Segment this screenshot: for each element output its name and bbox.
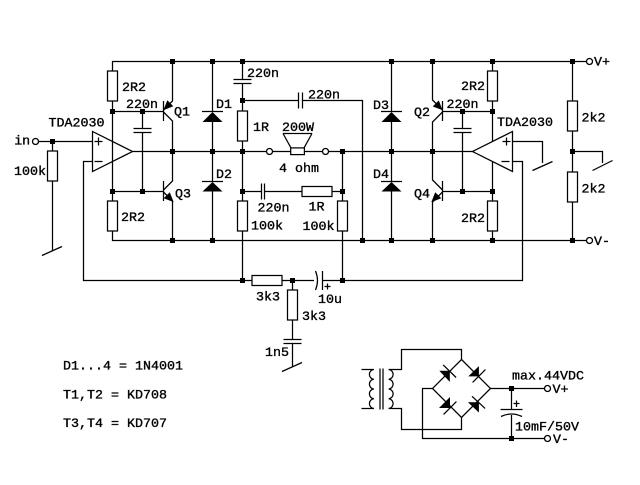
svg-text:220n: 220n [247, 67, 279, 82]
junction (172,240) [170, 238, 175, 243]
svg-text:200W: 200W [282, 121, 314, 136]
junction (142,111) [140, 109, 145, 114]
junction (492,240) [490, 238, 495, 243]
ground U2 plus input [533, 162, 553, 171]
wire D1 cathode lead [212, 62, 214, 112]
wire 1R bottom lead [242, 141, 244, 152]
transistor Q3 emitter arrow [165, 193, 173, 201]
capacitor C8 10mF plates [501, 409, 523, 411]
transformer TR1 primary lead top [362, 369, 374, 371]
bridge diode lower-right [468, 402, 479, 412]
junction (492,111) [490, 109, 495, 114]
op-amp U2 triangle [473, 132, 513, 172]
wire D3 anode lead [391, 122, 393, 152]
junction (112,191) [110, 189, 115, 194]
svg-text:in: in [14, 134, 30, 149]
wire Q2 base row [443, 111, 493, 113]
wire U2 plus input [513, 142, 543, 164]
junction (572,240) [570, 238, 575, 243]
svg-text:10u: 10u [318, 293, 342, 308]
wire 2R2 top-right bottom lead [492, 101, 494, 112]
junction (242,61) [240, 59, 245, 64]
transistor Q1 base bar [163, 101, 165, 121]
junction (572,61) [570, 59, 575, 64]
diode D3 triangle [382, 112, 402, 122]
wire 3k3 to 1n5 [292, 320, 294, 339]
svg-text:Q2: Q2 [414, 106, 430, 121]
node speaker terminal left [267, 149, 273, 155]
transformer TR1 primary lead bottom [362, 408, 374, 410]
svg-text:2R2: 2R2 [461, 212, 485, 227]
svg-text:V+: V+ [553, 383, 569, 398]
svg-text:2R2: 2R2 [122, 81, 146, 96]
junction (492,191) [490, 189, 495, 194]
svg-text:100k: 100k [14, 165, 46, 180]
junction (391,151) [389, 149, 394, 154]
diode D2 triangle [203, 182, 223, 192]
transformer TR1 secondary coil [389, 370, 393, 409]
svg-text:1n5: 1n5 [265, 346, 289, 361]
wire 1R top lead [242, 101, 244, 112]
junction (432,240) [430, 238, 435, 243]
junction (112,111) [110, 109, 115, 114]
transformer TR1 core [379, 369, 381, 410]
svg-text:D1: D1 [216, 98, 232, 113]
wire x492 through U2 [492, 112, 494, 192]
wire 2R2 bottom-left top lead [112, 192, 114, 202]
wire Q1 base row left [113, 111, 164, 113]
node V- terminal [587, 238, 593, 244]
resistor R6 1R horizontal [302, 187, 332, 197]
wire 100k mid-left to feedback row [242, 231, 244, 281]
svg-text:Q3: Q3 [175, 188, 191, 203]
wire 2R2 bottom-right top lead [492, 192, 494, 202]
wire secondary bottom to bridge [389, 409, 462, 430]
capacitor C2 220n top [242, 62, 244, 80]
wire secondary top to bridge [389, 350, 462, 370]
svg-text:D2: D2 [216, 168, 232, 183]
bridge diode lower-left [439, 397, 450, 408]
node V- psu terminal [545, 436, 551, 442]
node V+ psu terminal [545, 386, 551, 392]
transistor Q2 emitter [433, 62, 443, 111]
wire Q4 base row [443, 191, 493, 193]
diode D2 cathode bar [202, 181, 223, 183]
svg-text:Q1: Q1 [174, 106, 190, 121]
junction (572,151) [570, 149, 575, 154]
svg-text:10mF/50V: 10mF/50V [515, 421, 579, 436]
speaker horn [283, 133, 312, 135]
capacitor C7 220n right [462, 112, 464, 129]
junction (391,61) [389, 59, 394, 64]
wire V+ top rail [113, 62, 587, 72]
svg-text:D1...4 = 1N4001: D1...4 = 1N4001 [63, 360, 183, 375]
junction (172,151) [170, 149, 175, 154]
resistor R7 100k mid-right [338, 201, 348, 231]
resistor R8 3k3 horizontal [252, 276, 282, 286]
svg-text:1R: 1R [309, 201, 325, 216]
svg-text:3k3: 3k3 [302, 310, 326, 325]
junction (212,240) [210, 238, 215, 243]
wire input to U1 plus [39, 141, 93, 143]
wire output row [133, 151, 473, 153]
wire Q3 base row [113, 191, 164, 193]
wire 2R2 top-right top lead [492, 62, 494, 72]
junction (242,151) [240, 149, 245, 154]
svg-text:D4: D4 [373, 168, 389, 183]
diode D3 cathode bar [381, 111, 402, 113]
transistor Q2 base bar [442, 101, 444, 121]
bridge diamond [433, 360, 491, 418]
svg-text:1R: 1R [253, 121, 269, 136]
transistor Q3 base bar [163, 181, 165, 201]
transistor Q4 emitter [433, 192, 443, 241]
svg-text:TDA2030: TDA2030 [497, 116, 553, 131]
transistor Q2 collector [433, 112, 443, 152]
wire bridge to V- psu [423, 389, 545, 439]
wire 2k2 top lead [572, 62, 574, 102]
wire 100k mid-left node [242, 152, 244, 202]
svg-text:2R2: 2R2 [121, 211, 145, 226]
resistor R5 100k mid-left [238, 201, 248, 231]
wire C3 to V- rail [303, 101, 363, 241]
transformer TR1 primary coil [369, 370, 373, 409]
wire 2k2 bottom lead [572, 202, 574, 241]
wire 2R2 bottom-right bottom lead [492, 231, 494, 241]
junction (391,240) [389, 238, 394, 243]
svg-text:2R2: 2R2 [461, 80, 485, 95]
svg-text:max.44VDC: max.44VDC [512, 370, 584, 385]
resistor R13 2k2 bottom [568, 172, 578, 202]
op-amp U1 triangle [93, 132, 133, 172]
resistor R1 2R2 top-left [108, 71, 118, 101]
wire D3 cathode lead [391, 62, 393, 112]
svg-text:220n: 220n [447, 98, 479, 113]
wire C4 to 1R [265, 191, 303, 193]
svg-text:T1,T2 = KD708: T1,T2 = KD708 [63, 389, 167, 404]
junction (142,191) [140, 189, 145, 194]
junction (492,61) [490, 59, 495, 64]
wire node row y100 [243, 100, 299, 102]
op-amp U2 minus sign [502, 161, 510, 163]
wire V- rail [113, 231, 587, 241]
wire 2k2 mid branch [573, 152, 603, 164]
resistor R9 3k3 vertical [288, 290, 298, 320]
svg-text:2k2: 2k2 [582, 112, 606, 127]
resistor R4 2R2 bottom-left [108, 201, 118, 231]
junction (292,280) [290, 278, 295, 283]
wire D2 cathode lead [212, 152, 214, 182]
junction (212,61) [210, 59, 215, 64]
svg-text:Q4: Q4 [414, 188, 430, 203]
junction (362,240) [360, 238, 365, 243]
op-amp U1 minus sign [95, 161, 103, 163]
node V+ terminal [587, 59, 593, 65]
bridge diode upper-left [439, 371, 450, 382]
resistor R3 1R left [238, 111, 248, 141]
wire 1n5 to ground [292, 344, 294, 367]
wire 1R to node [332, 191, 343, 193]
wire D1 anode lead [212, 122, 214, 152]
svg-text:T3,T4 = KD707: T3,T4 = KD707 [63, 417, 167, 432]
svg-text:D3: D3 [373, 99, 389, 114]
junction (242,100) [240, 98, 245, 103]
transistor Q4 emitter arrow [432, 193, 440, 201]
svg-text:220n: 220n [126, 98, 158, 113]
svg-text:220n: 220n [308, 89, 340, 104]
junction (511,388) [509, 386, 514, 391]
ground input [42, 247, 62, 256]
svg-text:3k3: 3k3 [256, 291, 280, 306]
wire 100k to ground [52, 181, 54, 251]
resistor R2 100k input [48, 151, 58, 181]
wire 100k mid-right node [342, 152, 344, 202]
transistor Q1 emitter arrow [164, 101, 172, 109]
junction (462,111) [460, 109, 465, 114]
wire 100k top lead [52, 142, 54, 152]
wire C4 left lead [243, 191, 262, 193]
svg-text:4 ohm: 4 ohm [279, 162, 319, 177]
svg-text:TDA2030: TDA2030 [49, 117, 105, 132]
junction (242,280) [240, 278, 245, 283]
wire D4 cathode lead [391, 152, 393, 182]
wire 2R2 top-left to base row [112, 101, 114, 112]
capacitor C8 plus sign [516, 401, 518, 408]
resistor R12 2k2 top [568, 101, 578, 131]
junction (242,191) [240, 189, 245, 194]
capacitor C6 plus sign [327, 284, 329, 290]
wire U1 inverting input feedback [84, 162, 315, 281]
resistor R11 2R2 bottom-right [488, 201, 498, 231]
svg-text:100k: 100k [251, 220, 283, 235]
wire D2 anode lead [212, 192, 214, 241]
transistor Q2 emitter arrow [434, 101, 442, 109]
resistor R10 2R2 top-right [488, 71, 498, 101]
node speaker terminal right [323, 149, 329, 155]
wire feedback row right [323, 162, 523, 281]
transistor Q4 base bar [442, 181, 444, 201]
svg-text:2k2: 2k2 [582, 183, 606, 198]
wire bridge to V+ psu [491, 388, 545, 390]
transistor Q1 emitter [164, 62, 173, 111]
junction (212,151) [210, 149, 215, 154]
wire 2k2 mid [572, 131, 574, 172]
ground 2k2 mid [593, 161, 613, 171]
junction (342,151) [340, 149, 345, 154]
junction (342,280) [340, 278, 345, 283]
wire 100k mid-right to feedback row [342, 231, 344, 281]
svg-text:V+: V+ [594, 56, 610, 71]
junction (432,61) [430, 59, 435, 64]
node input terminal [33, 139, 39, 145]
junction (511,438) [509, 436, 514, 441]
transistor Q4 collector [433, 152, 443, 191]
capacitor C5 1n5 [284, 339, 302, 341]
diode D4 triangle [382, 182, 402, 192]
transistor Q3 emitter [164, 192, 173, 241]
wire D4 anode lead [391, 192, 393, 241]
capacitor C1 220n left [142, 112, 144, 129]
capacitor C6 10u [316, 271, 318, 290]
capacitor C3 220n series upper [298, 93, 300, 109]
transistor Q3 collector [164, 152, 173, 191]
op-amp U2 plus sign [503, 141, 511, 143]
ground 1n5 [282, 363, 302, 372]
speaker LS1 box [291, 148, 305, 155]
wire x112 through U1 [112, 112, 114, 192]
svg-text:100k: 100k [303, 220, 335, 235]
svg-text:220n: 220n [258, 202, 290, 217]
diode D1 cathode bar [202, 111, 223, 113]
junction (172,61) [170, 59, 175, 64]
diode D1 triangle [203, 112, 223, 122]
capacitor C8 bottom lead [511, 415, 513, 439]
op-amp U1 plus sign [95, 141, 103, 143]
junction (52,141) [50, 139, 55, 144]
capacitor C8 10mF top lead [511, 390, 513, 410]
wire 3k3 vertical top lead [292, 281, 294, 291]
diode D4 cathode bar [381, 181, 402, 183]
bridge diode upper-right [468, 366, 479, 376]
svg-text:V-: V- [594, 235, 610, 250]
junction (342,191) [340, 189, 345, 194]
junction (432,151) [430, 149, 435, 154]
capacitor C4 220n series lower [261, 184, 263, 200]
junction (462,191) [460, 189, 465, 194]
transistor Q1 collector [164, 112, 173, 152]
